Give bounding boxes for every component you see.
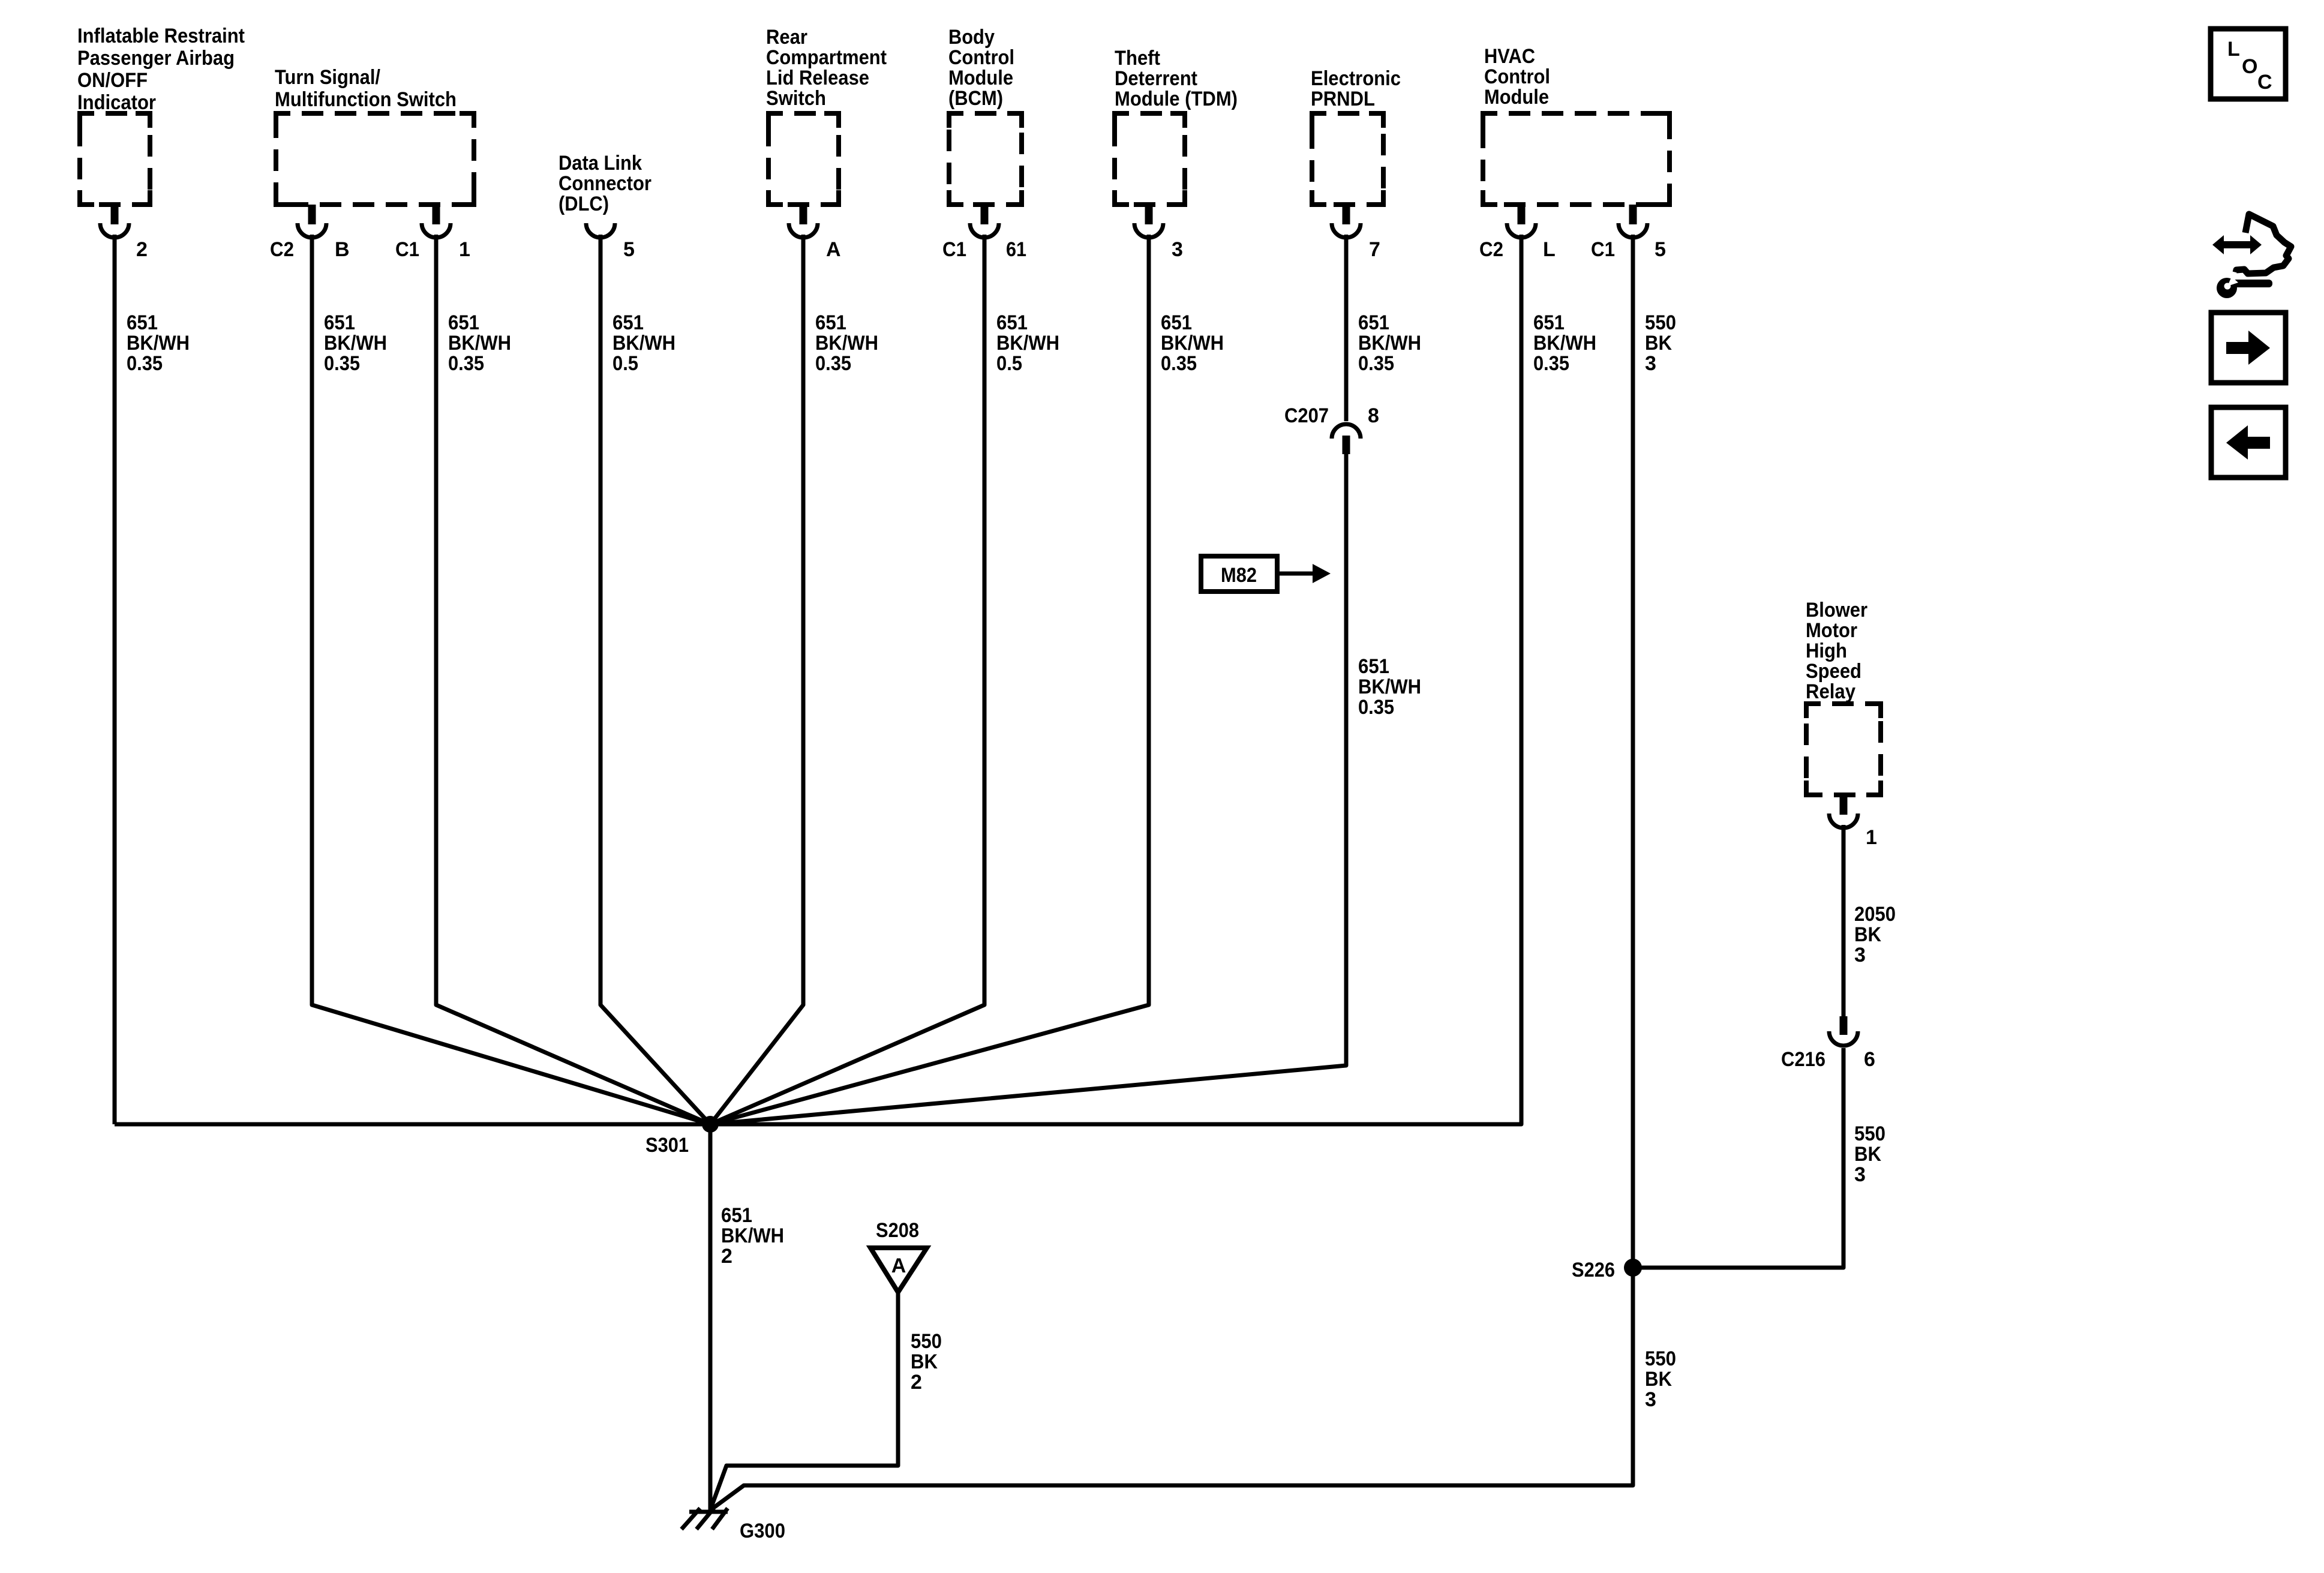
wire 651 BK/WH from C207 to S301 <box>710 453 1346 1124</box>
svg-text:S208: S208 <box>876 1219 919 1242</box>
splice S301 (junction dot) <box>702 1116 719 1133</box>
wire 2050 BK from relay pin 1 to C216 <box>1842 825 1846 1016</box>
svg-text:C216: C216 <box>1781 1048 1825 1071</box>
bus wire through S301 <box>115 1122 1521 1127</box>
svg-text:7: 7 <box>1369 238 1380 261</box>
icon: backward arrow box <box>2211 407 2286 478</box>
svg-text:L: L <box>1543 238 1556 261</box>
pin connector, Turn Signal C1 pin 1 <box>422 205 451 238</box>
svg-text:C207: C207 <box>1284 404 1329 427</box>
wire 550 BK from S226 to C216 <box>1633 1048 1843 1268</box>
legend box LOC <box>2211 29 2286 99</box>
svg-text:M82: M82 <box>1221 564 1257 587</box>
pin connector, Blower Motor High Speed Relay pin 1 <box>1829 795 1858 828</box>
connector C207 (in-line, cavity 8) <box>1332 424 1361 454</box>
pin connector, BCM C1 pin 61 <box>970 205 999 238</box>
svg-text:C1: C1 <box>942 238 966 261</box>
svg-text:C1: C1 <box>395 238 419 261</box>
wire 651 BK/WH from Indicator pin 2 <box>113 235 117 1124</box>
component: Electronic PRNDL (dashed box) <box>1312 113 1383 205</box>
wire 651 BK/WH from DLC pin 5 to S301 <box>600 235 710 1124</box>
wire 651 BK/WH from Turn Signal pin 1 to S301 <box>436 235 710 1124</box>
pin connector, HVAC C2 pin L <box>1507 205 1536 238</box>
icon: forward arrow box <box>2211 313 2286 383</box>
svg-text:6: 6 <box>1864 1048 1875 1071</box>
svg-text:3: 3 <box>1172 238 1183 261</box>
svg-text:C: C <box>2257 71 2272 94</box>
wire 550 BK from HVAC pin 5 through S226 to G300 <box>712 235 1633 1509</box>
svg-text:A: A <box>826 238 841 261</box>
svg-text:O: O <box>2242 55 2257 78</box>
wire 651 BK/WH from Turn Signal pin B to S301 <box>312 235 710 1124</box>
wire 651 BK/WH from PRNDL pin 7 to C207 <box>1344 235 1349 421</box>
component: Theft Deterrent Module (TDM) (dashed box) <box>1115 113 1185 205</box>
component: Blower Motor High Speed Relay (dashed box) <box>1806 704 1881 795</box>
svg-text:5: 5 <box>1655 238 1666 261</box>
svg-text:2: 2 <box>136 238 148 261</box>
svg-text:L: L <box>2227 38 2240 61</box>
ground G300 (symbol) <box>681 1508 728 1529</box>
svg-text:A: A <box>891 1254 906 1277</box>
svg-text:1: 1 <box>459 238 470 261</box>
component: Body Control Module (BCM) (dashed box) <box>949 113 1022 205</box>
component: Rear Compartment Lid Release Switch (dashed box) <box>768 113 839 205</box>
wire 651 BK/WH from S301 to G300 <box>708 1124 713 1510</box>
icon: body repair (double arrow, body outline, wrench) <box>2212 214 2291 298</box>
svg-text:G300: G300 <box>740 1520 785 1542</box>
svg-text:C1: C1 <box>1591 238 1615 261</box>
svg-text:5: 5 <box>623 238 635 261</box>
connector C216 (in-line, cavity 6) <box>1829 1016 1858 1046</box>
component: Inflatable Restraint Passenger Airbag ON/OFF Indicator (dashed box) <box>80 113 150 205</box>
pin connector, Rear Compartment Lid Release Switch pin A <box>789 205 818 238</box>
wire 651 BK/WH from BCM pin 61 to S301 <box>710 235 984 1124</box>
svg-text:1: 1 <box>1866 826 1877 849</box>
pin connector, TDM pin 3 <box>1134 205 1163 238</box>
svg-text:S226: S226 <box>1572 1259 1615 1281</box>
pin connector, Electronic PRNDL pin 7 <box>1332 205 1361 238</box>
pin connector, DLC pin 5 <box>586 223 615 238</box>
wire 651 BK/WH from TDM pin 3 to S301 <box>710 235 1149 1124</box>
wire 651 BK/WH from HVAC pin L to S301 <box>710 235 1521 1124</box>
splice symbol S208 (triangle) <box>870 1248 927 1292</box>
svg-text:S301: S301 <box>645 1134 689 1157</box>
svg-text:B: B <box>335 238 350 261</box>
svg-text:8: 8 <box>1368 404 1379 427</box>
splice S226 (junction dot) <box>1624 1259 1642 1277</box>
pin connector, Turn Signal C2 pin B <box>298 205 326 238</box>
component: HVAC Control Module (dashed box) <box>1483 113 1670 205</box>
component: Turn Signal/Multifunction Switch (dashed box) <box>276 113 474 205</box>
pin connector, HVAC C1 pin 5 <box>1619 205 1647 238</box>
wire 550 BK from S208 to G300 <box>711 1292 898 1508</box>
svg-text:C2: C2 <box>270 238 294 261</box>
arrow from M82 to wire <box>1277 564 1331 583</box>
reference box M82 <box>1201 556 1277 592</box>
svg-text:C2: C2 <box>1479 238 1503 261</box>
pin connector, Indicator pin 2 <box>100 205 129 238</box>
wire 651 BK/WH from Lid Release Switch pin A to S301 <box>710 235 803 1124</box>
svg-text:61: 61 <box>1006 238 1026 261</box>
